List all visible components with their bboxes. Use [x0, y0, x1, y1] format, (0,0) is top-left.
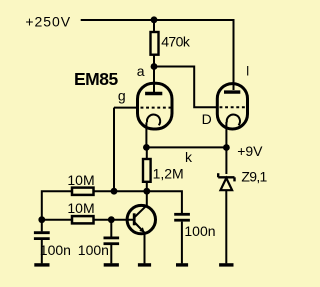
- wire grid feedback vertical: [113, 108, 115, 192]
- resistor 10M upper: [72, 188, 94, 195]
- svg-text:D: D: [202, 111, 212, 127]
- wire anode junction to right grid: [154, 67, 218, 108]
- ground under zener: [219, 263, 233, 266]
- wire row1 left: [42, 191, 72, 231]
- capacitor C2 100n plates: [104, 236, 120, 239]
- node cathode junction k: [143, 144, 150, 151]
- svg-text:1,2M: 1,2M: [153, 166, 184, 182]
- svg-text:Z9,1: Z9,1: [241, 169, 267, 185]
- capacitor C1 100n plates: [34, 231, 50, 234]
- svg-text:a: a: [137, 63, 145, 79]
- transistor emitter diagonal: [134, 222, 144, 233]
- grid dashed line V1: [141, 107, 172, 109]
- zener wing left: [217, 173, 219, 177]
- resistor 1,2M: [143, 159, 151, 182]
- anode plate bar V1: [145, 92, 162, 95]
- svg-text:100n: 100n: [40, 242, 71, 258]
- wire cathode lead V2: [225, 122, 227, 148]
- wire grid lead V1: [114, 107, 138, 109]
- tube V1 envelope (EM85 triode section): [138, 83, 173, 129]
- ground under C2: [104, 263, 119, 266]
- wire k line: [146, 146, 226, 148]
- svg-text:100n: 100n: [184, 223, 215, 239]
- wire C2 bottom lead: [110, 245, 112, 263]
- resistor 470k: [151, 32, 159, 55]
- grid dashed line V2: [220, 106, 246, 108]
- wire row1 right: [94, 191, 182, 213]
- transistor collector diagonal: [134, 205, 147, 217]
- wire emitter lead: [144, 233, 146, 263]
- wire left plate lead: [153, 67, 155, 94]
- wire C3 bottom lead: [181, 222, 183, 264]
- wire zener bottom lead: [225, 190, 227, 263]
- capacitor C3 100n plates: [174, 213, 190, 216]
- wire cathode lead V1: [145, 123, 147, 148]
- node grid junction row1: [111, 188, 118, 195]
- wire 1,2M top lead: [146, 147, 148, 159]
- wire right anode lead: [233, 19, 235, 90]
- ground under Q1 emitter: [138, 263, 151, 266]
- svg-text:100n: 100n: [78, 242, 109, 258]
- node anode junction a: [151, 63, 158, 70]
- zener diode Z9,1 cathode bar: [218, 176, 234, 178]
- wire C2 top lead: [110, 220, 112, 237]
- anode plate bar V2: [224, 90, 240, 93]
- svg-text:EM85: EM85: [74, 69, 118, 89]
- node collector junction row1: [143, 188, 150, 195]
- wire row2 right to base: [94, 219, 135, 221]
- wire top rail: [81, 19, 234, 21]
- svg-text:k: k: [185, 149, 193, 165]
- wire 470k top lead: [153, 20, 155, 32]
- svg-text:l: l: [246, 63, 249, 78]
- cathode arc V1: [147, 115, 160, 126]
- transistor base bar: [133, 213, 136, 225]
- wire C1 bottom lead: [41, 240, 43, 263]
- ground under C3: [176, 263, 188, 266]
- wire zener top lead: [225, 148, 227, 175]
- svg-text:470k: 470k: [161, 33, 191, 49]
- wire row2 left: [42, 219, 72, 221]
- node cap2 junction row2: [108, 216, 115, 223]
- wire collector lead: [146, 191, 148, 206]
- resistor 10M lower: [72, 216, 94, 223]
- svg-text:10M: 10M: [67, 200, 94, 216]
- transistor Q1 circle: [127, 205, 155, 233]
- emitter arrowhead: [139, 227, 144, 232]
- svg-text:+250V: +250V: [25, 14, 71, 30]
- svg-text:+9V: +9V: [237, 143, 263, 159]
- node k junction right: [223, 144, 230, 151]
- zener triangle: [221, 178, 233, 190]
- tube V2 envelope (EM85 indicator section): [217, 84, 247, 129]
- cathode arc V2: [227, 115, 240, 126]
- svg-text:g: g: [118, 88, 126, 104]
- ground under C1: [34, 263, 49, 266]
- zener wing right: [233, 177, 235, 181]
- node rail row2 junction: [38, 216, 45, 223]
- wire 1,2M bottom lead: [146, 182, 148, 191]
- svg-text:10M: 10M: [67, 172, 94, 188]
- wire 470k bottom lead: [153, 55, 155, 67]
- node junction top of 470k: [151, 16, 158, 23]
